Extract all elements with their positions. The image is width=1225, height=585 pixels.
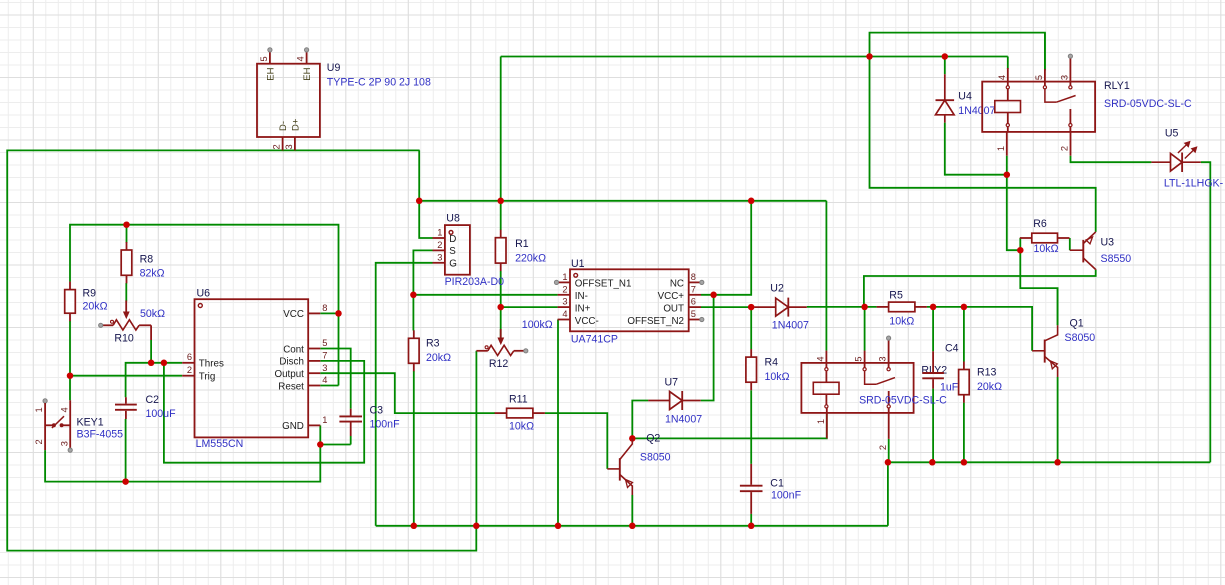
- svg-text:U8: U8: [446, 213, 460, 225]
- svg-text:4: 4: [816, 357, 826, 362]
- wire: [701, 295, 714, 401]
- svg-text:R1: R1: [515, 238, 529, 250]
- svg-text:OFFSET_N1: OFFSET_N1: [575, 279, 632, 290]
- svg-text:IN+: IN+: [575, 303, 591, 314]
- svg-text:100nF: 100nF: [771, 490, 802, 502]
- wire: [701, 306, 751, 308]
- wire: [413, 250, 432, 330]
- wire: [927, 307, 1032, 351]
- svg-text:2: 2: [878, 445, 888, 450]
- wire: [963, 403, 965, 463]
- wire: [945, 123, 1007, 175]
- wire: [807, 306, 877, 308]
- junction: [961, 304, 968, 311]
- wire: [825, 201, 827, 351]
- svg-text:R8: R8: [140, 254, 154, 266]
- svg-text:R13: R13: [977, 367, 997, 379]
- svg-text:R4: R4: [765, 357, 779, 369]
- connector U9 TYPE-C: [257, 48, 320, 151]
- wire: [1020, 250, 1057, 325]
- junction: [942, 53, 949, 60]
- wire: [870, 57, 1096, 232]
- wire: [870, 33, 1045, 70]
- junction: [411, 523, 418, 530]
- sensor U8 PIR203A-D0: [433, 225, 470, 275]
- pin labels U6: [187, 303, 328, 432]
- svg-text:2: 2: [562, 284, 567, 294]
- wire: [1006, 156, 1008, 175]
- svg-text:4: 4: [997, 75, 1007, 80]
- wire: [350, 436, 352, 445]
- wire: [888, 439, 890, 462]
- svg-text:8: 8: [691, 272, 696, 282]
- wire: [1057, 288, 1059, 325]
- wire: [500, 271, 502, 340]
- svg-text:1N4007: 1N4007: [772, 319, 809, 331]
- svg-text:10kΩ: 10kΩ: [1034, 243, 1059, 255]
- wire: [750, 390, 752, 464]
- diode U2 1N4007: [754, 306, 775, 308]
- svg-text:G: G: [449, 259, 457, 270]
- svg-text:PIR203A-D0: PIR203A-D0: [445, 276, 505, 288]
- wire: [1019, 238, 1021, 250]
- op-amp U1 UA741CP: [554, 269, 704, 331]
- svg-text:Trig: Trig: [199, 372, 216, 383]
- wire: [419, 201, 432, 238]
- svg-text:1N4007: 1N4007: [665, 414, 702, 426]
- svg-text:Q1: Q1: [1070, 318, 1084, 330]
- svg-text:C4: C4: [945, 343, 959, 355]
- wire: [320, 373, 495, 413]
- svg-text:8: 8: [322, 303, 327, 313]
- wire: [888, 462, 1210, 526]
- resistor R11: [495, 412, 507, 414]
- svg-text:R10: R10: [114, 333, 134, 345]
- wire: [320, 312, 338, 314]
- svg-text:EH: EH: [265, 67, 276, 80]
- junction: [1004, 171, 1011, 178]
- junction: [122, 478, 129, 485]
- junction: [67, 372, 74, 379]
- wire: [413, 294, 557, 296]
- wire: [501, 306, 558, 308]
- wire: [376, 263, 433, 526]
- svg-text:EH: EH: [302, 67, 313, 80]
- wire: [864, 307, 866, 351]
- resistor R1: [500, 230, 502, 238]
- svg-text:10kΩ: 10kΩ: [765, 371, 790, 383]
- junction: [1017, 247, 1024, 254]
- svg-text:D: D: [449, 234, 456, 245]
- svg-text:U4: U4: [958, 91, 972, 103]
- junction: [410, 292, 417, 299]
- svg-text:1: 1: [996, 146, 1006, 151]
- capacitor C1: [740, 464, 763, 514]
- wire: [418, 150, 420, 200]
- svg-text:UA741CP: UA741CP: [571, 334, 618, 346]
- LED U5: [1151, 142, 1200, 172]
- wire: [125, 419, 127, 482]
- svg-text:R6: R6: [1033, 218, 1047, 230]
- svg-text:2: 2: [1060, 146, 1070, 151]
- wire: [7, 150, 476, 550]
- wire: [69, 321, 71, 400]
- capacitor C4: [922, 351, 944, 388]
- wire: [1007, 175, 1021, 251]
- svg-text:6: 6: [691, 297, 696, 307]
- wire: [545, 413, 607, 469]
- resistor R13: [963, 362, 965, 370]
- svg-text:10kΩ: 10kΩ: [509, 421, 534, 433]
- svg-text:VCC: VCC: [283, 309, 304, 320]
- svg-text:TYPE-C 2P 90 2J 108: TYPE-C 2P 90 2J 108: [327, 76, 431, 88]
- svg-text:220kΩ: 220kΩ: [515, 252, 546, 264]
- capacitor C3: [339, 409, 362, 436]
- junction: [497, 304, 504, 311]
- svg-text:LM555CN: LM555CN: [196, 438, 244, 450]
- svg-text:4: 4: [60, 407, 70, 412]
- junction: [748, 304, 755, 311]
- wire: [557, 320, 559, 526]
- svg-text:1uF: 1uF: [940, 382, 959, 394]
- wire: [413, 371, 415, 526]
- svg-text:R12: R12: [489, 358, 509, 370]
- svg-text:S: S: [449, 246, 456, 257]
- svg-text:SRD-05VDC-SL-C: SRD-05VDC-SL-C: [859, 394, 947, 406]
- transistor U3 S8550 PNP: [1070, 232, 1096, 270]
- svg-text:1: 1: [562, 272, 567, 282]
- wire: [150, 340, 152, 363]
- svg-text:KEY1: KEY1: [77, 417, 104, 429]
- svg-text:3: 3: [284, 144, 294, 149]
- potentiometer R10: [99, 301, 152, 341]
- svg-text:S8050: S8050: [640, 452, 671, 464]
- wire: [419, 200, 826, 202]
- svg-text:100uF: 100uF: [146, 408, 177, 420]
- wire: [1057, 377, 1059, 462]
- diode U4 1N4007 vertical: [936, 74, 955, 122]
- svg-text:S8550: S8550: [1101, 253, 1132, 265]
- svg-text:SRD-05VDC-SL-C: SRD-05VDC-SL-C: [1104, 98, 1192, 110]
- wire: [944, 57, 946, 75]
- wire: [45, 425, 320, 481]
- svg-text:5: 5: [1034, 75, 1044, 80]
- wire: [632, 401, 648, 439]
- svg-text:U1: U1: [571, 258, 585, 270]
- svg-text:NC: NC: [670, 279, 684, 290]
- transistor Q2 S8050 NPN: [607, 438, 632, 495]
- timer IC U6 LM555CN: [182, 299, 320, 437]
- svg-text:R5: R5: [889, 290, 903, 302]
- svg-text:Reset: Reset: [278, 381, 304, 392]
- wire: [963, 307, 965, 362]
- svg-text:20kΩ: 20kΩ: [83, 301, 108, 313]
- svg-text:5: 5: [854, 357, 864, 362]
- svg-text:4: 4: [296, 56, 306, 61]
- svg-text:3: 3: [1059, 75, 1069, 80]
- svg-text:2: 2: [437, 240, 442, 250]
- svg-text:7: 7: [322, 351, 327, 361]
- wire: [1007, 57, 1009, 70]
- svg-text:Cont: Cont: [283, 344, 304, 355]
- wire: [500, 57, 502, 201]
- relay RLY1 SRD-05VDC-SL-C: [982, 54, 1095, 156]
- svg-text:B3F-4055: B3F-4055: [77, 429, 124, 441]
- potentiometer R12: [476, 329, 528, 356]
- wire: [125, 283, 127, 302]
- svg-text:1: 1: [816, 419, 826, 424]
- svg-text:2: 2: [272, 144, 282, 149]
- svg-text:5: 5: [259, 56, 269, 61]
- svg-text:3: 3: [562, 297, 567, 307]
- wire: [501, 56, 1008, 58]
- junction: [930, 304, 937, 311]
- wire: [864, 270, 1096, 307]
- svg-text:82kΩ: 82kΩ: [140, 268, 165, 280]
- junction: [317, 441, 324, 448]
- svg-text:U7: U7: [665, 376, 679, 388]
- svg-text:1: 1: [437, 228, 442, 238]
- wire: [1044, 33, 1046, 71]
- svg-text:U5: U5: [1165, 128, 1179, 140]
- junction: [473, 523, 480, 530]
- svg-text:10kΩ: 10kΩ: [889, 316, 914, 328]
- wire: [70, 225, 339, 386]
- svg-text:Output: Output: [274, 369, 304, 380]
- junction: [1054, 459, 1061, 466]
- svg-text:Thres: Thres: [199, 359, 224, 370]
- svg-text:VCC-: VCC-: [575, 316, 599, 327]
- svg-text:R3: R3: [426, 338, 440, 350]
- svg-text:RLY1: RLY1: [1104, 80, 1130, 92]
- svg-text:6: 6: [187, 352, 192, 362]
- resistor R8: [126, 242, 128, 250]
- wire: [500, 201, 502, 230]
- svg-text:1: 1: [34, 407, 44, 412]
- junction: [861, 304, 868, 311]
- junction: [629, 435, 636, 442]
- svg-text:R11: R11: [509, 394, 528, 406]
- wire: [631, 495, 633, 526]
- svg-text:1: 1: [322, 415, 327, 425]
- svg-text:20kΩ: 20kΩ: [977, 381, 1002, 393]
- capacitor C2: [115, 397, 137, 419]
- svg-text:50kΩ: 50kΩ: [140, 308, 165, 320]
- wire: [932, 307, 934, 351]
- junction: [148, 360, 155, 367]
- svg-text:100kΩ: 100kΩ: [522, 319, 553, 331]
- svg-text:100nF: 100nF: [370, 419, 401, 431]
- svg-text:3: 3: [60, 441, 70, 446]
- svg-text:Q2: Q2: [646, 433, 660, 445]
- relay RLY2 SRD-05VDC-SL-C: [801, 336, 913, 450]
- wire: [126, 225, 128, 243]
- wire: [1069, 238, 1071, 250]
- resistor R5: [877, 306, 889, 308]
- wire: [126, 363, 183, 397]
- wire: [164, 361, 364, 463]
- svg-text:Disch: Disch: [279, 357, 304, 368]
- svg-text:U2: U2: [770, 283, 784, 295]
- svg-text:1N4007: 1N4007: [958, 105, 995, 117]
- pushbutton KEY1: [34, 399, 72, 452]
- junction: [629, 523, 636, 530]
- junction: [161, 360, 168, 367]
- svg-text:S8050: S8050: [1065, 332, 1096, 344]
- wire: [70, 375, 182, 377]
- resistor R6: [1020, 237, 1032, 239]
- wire: [320, 349, 350, 409]
- svg-text:3: 3: [437, 252, 442, 262]
- svg-text:20kΩ: 20kΩ: [426, 352, 451, 364]
- junction: [748, 198, 755, 205]
- wire: [320, 385, 338, 387]
- junction: [961, 459, 968, 466]
- svg-text:R9: R9: [83, 287, 97, 299]
- wire: [750, 307, 752, 349]
- junction: [416, 198, 423, 205]
- svg-text:D-: D-: [278, 121, 289, 131]
- wire: [632, 413, 827, 439]
- diode U7 1N4007: [648, 400, 669, 402]
- junction: [123, 221, 130, 228]
- wire: [376, 525, 888, 527]
- svg-text:U9: U9: [327, 62, 341, 74]
- svg-text:LTL-1LHGK-: LTL-1LHGK-: [1164, 178, 1224, 190]
- resistor R9: [69, 282, 71, 290]
- svg-text:5: 5: [691, 309, 696, 319]
- svg-text:VCC+: VCC+: [658, 291, 685, 302]
- svg-text:7: 7: [691, 284, 696, 294]
- wire: [1071, 156, 1152, 163]
- svg-text:3: 3: [322, 363, 327, 373]
- svg-text:4: 4: [562, 309, 567, 319]
- resistor R3: [413, 330, 415, 338]
- svg-text:C1: C1: [770, 478, 784, 490]
- svg-text:U3: U3: [1101, 237, 1115, 249]
- svg-text:D+: D+: [291, 118, 302, 131]
- svg-text:3: 3: [878, 357, 888, 362]
- junction: [497, 198, 504, 205]
- svg-text:4: 4: [322, 375, 327, 385]
- svg-text:2: 2: [34, 439, 44, 444]
- svg-text:U6: U6: [197, 288, 211, 300]
- junction: [885, 459, 892, 466]
- junction: [555, 523, 562, 530]
- junction: [335, 310, 342, 317]
- svg-text:5: 5: [322, 338, 327, 348]
- wire: [750, 514, 752, 526]
- svg-text:2: 2: [187, 365, 192, 375]
- svg-text:C2: C2: [146, 394, 160, 406]
- junction: [866, 53, 873, 60]
- svg-text:OUT: OUT: [663, 303, 684, 314]
- resistor R4: [750, 349, 752, 357]
- svg-text:C3: C3: [370, 405, 384, 417]
- wire: [475, 351, 477, 526]
- transistor Q1 S8050 NPN: [1032, 325, 1058, 377]
- junction: [748, 523, 755, 530]
- svg-text:RLY2: RLY2: [921, 364, 947, 376]
- svg-text:GND: GND: [282, 421, 304, 432]
- wire: [1201, 162, 1211, 462]
- wire: [320, 444, 350, 446]
- junction: [929, 459, 936, 466]
- junction: [710, 292, 717, 299]
- wire: [932, 389, 934, 463]
- svg-text:OFFSET_N2: OFFSET_N2: [627, 316, 684, 327]
- wire: [701, 201, 751, 295]
- svg-text:IN-: IN-: [575, 291, 588, 302]
